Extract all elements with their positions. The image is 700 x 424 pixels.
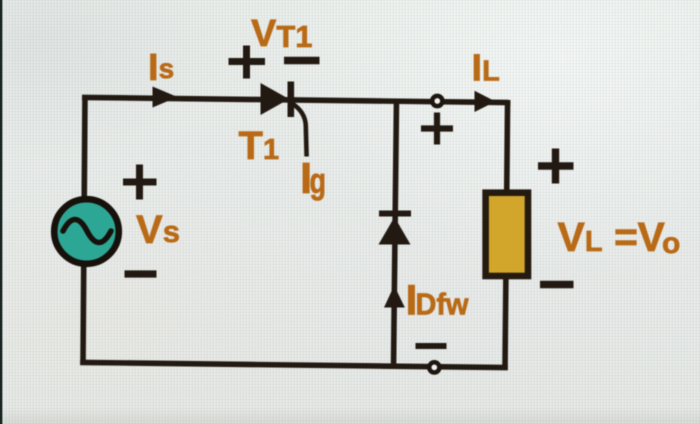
node + output terminal (open circle, top): [432, 96, 442, 106]
wire gate of T1: [292, 103, 307, 157]
wire bottom (return): [80, 362, 508, 367]
polarity - (source VS bottom): [125, 270, 157, 277]
wire right (load branch): [505, 100, 508, 370]
polarity + (output terminal top): [421, 113, 453, 145]
svg-text:T1: T1: [239, 124, 280, 168]
svg-text:Vs: Vs: [136, 208, 180, 252]
svg-text:Is: Is: [148, 47, 174, 89]
wire top (source to load corner): [82, 97, 510, 102]
polarity + (anode of T1, for VT1): [229, 46, 266, 79]
svg-text:IL: IL: [472, 48, 500, 90]
load resistor (rectangle): [486, 193, 528, 276]
thyristor T1: [261, 82, 291, 118]
ac source VS: [54, 199, 119, 264]
polarity - (load bottom): [540, 281, 574, 288]
current arrow IDfw: [384, 286, 405, 308]
svg-text:IDfw: IDfw: [406, 277, 470, 325]
diode Dfw (freewheeling): [379, 214, 412, 245]
svg-text:VL=Vo: VL=Vo: [558, 214, 681, 260]
svg-text:VT1: VT1: [251, 13, 313, 55]
svg-text:Ig: Ig: [300, 154, 326, 203]
polarity + (load top): [538, 149, 574, 184]
current arrow Is: [153, 87, 178, 108]
polarity + (source VS top): [123, 165, 157, 200]
node - output terminal (open circle, bottom): [429, 362, 439, 372]
wire middle (freewheel diode branch): [394, 99, 397, 369]
wire left (source branch): [83, 95, 85, 365]
current arrow IL: [475, 91, 496, 112]
polarity - (cathode of T1, for VT1): [284, 57, 320, 64]
polarity - (output terminal bottom): [416, 343, 447, 349]
